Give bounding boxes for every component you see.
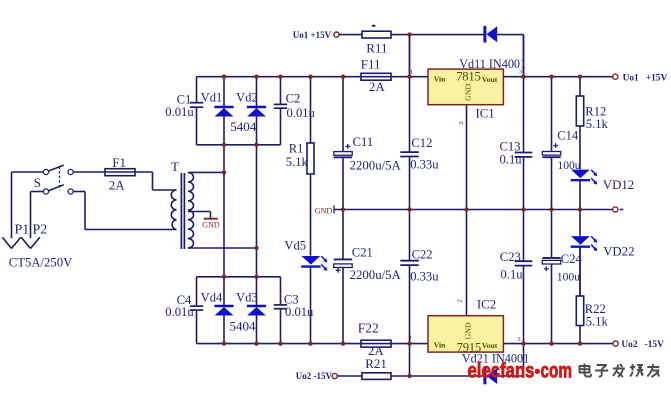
svg-text:Uo1 +15V: Uo1 +15V (293, 30, 332, 40)
svg-text:5404: 5404 (230, 119, 256, 134)
svg-text:F11: F11 (361, 56, 381, 71)
svg-text:F22: F22 (358, 321, 379, 336)
svg-text:C11: C11 (353, 135, 374, 149)
svg-text:0.33u: 0.33u (410, 270, 439, 284)
svg-text:Vin: Vin (434, 74, 446, 83)
svg-text:C2: C2 (286, 91, 301, 105)
svg-text:Vd11 IN4001: Vd11 IN4001 (459, 57, 526, 71)
svg-text:Vin: Vin (434, 340, 446, 349)
svg-text:5404: 5404 (230, 319, 257, 334)
svg-text:GND: GND (464, 84, 473, 101)
svg-text:100u: 100u (557, 159, 580, 172)
svg-text:0.01u: 0.01u (287, 106, 316, 120)
svg-text:VD12: VD12 (603, 178, 634, 192)
svg-text:0.33u: 0.33u (410, 158, 439, 172)
svg-text:0.01u: 0.01u (165, 305, 194, 319)
svg-text:2200u/5A: 2200u/5A (350, 268, 402, 282)
svg-text:Vd3: Vd3 (236, 291, 258, 305)
svg-text:7815: 7815 (456, 69, 480, 83)
svg-text:0.01u: 0.01u (165, 105, 194, 119)
svg-text:R11: R11 (366, 40, 387, 55)
svg-text:100u: 100u (557, 271, 580, 284)
svg-text:C23: C23 (500, 250, 521, 264)
svg-text:0.1u: 0.1u (500, 152, 523, 166)
svg-text:2: 2 (458, 121, 465, 124)
svg-text:1: 1 (409, 334, 412, 341)
svg-text:GND: GND (315, 206, 333, 215)
svg-text:CT5A/250V: CT5A/250V (9, 255, 73, 269)
svg-text:Vd4: Vd4 (201, 291, 223, 305)
svg-text:2: 2 (457, 299, 464, 302)
svg-text:0.01u: 0.01u (285, 305, 314, 319)
svg-text:com: com (541, 359, 573, 382)
svg-text:S: S (34, 175, 41, 190)
svg-text:C12: C12 (411, 136, 432, 150)
svg-text:elecfans: elecfans (468, 359, 535, 382)
svg-text:F1: F1 (112, 155, 126, 170)
svg-text:0.1u: 0.1u (501, 268, 524, 282)
svg-text:2A: 2A (109, 178, 126, 193)
svg-text:P2: P2 (33, 223, 48, 238)
svg-text:C13: C13 (500, 139, 521, 153)
svg-text:GND: GND (464, 322, 473, 339)
svg-text:C24: C24 (561, 252, 583, 266)
svg-text:5.1k: 5.1k (286, 155, 309, 169)
svg-text:5.1k: 5.1k (586, 315, 609, 329)
svg-text:Vout: Vout (482, 75, 498, 84)
svg-text:P1: P1 (15, 223, 30, 238)
svg-text:T: T (171, 159, 179, 174)
svg-text:R21: R21 (365, 356, 387, 371)
svg-text:GND: GND (202, 221, 220, 230)
svg-text:Vd1: Vd1 (201, 91, 223, 105)
svg-text:IC2: IC2 (477, 297, 496, 311)
svg-text:Vd5: Vd5 (284, 238, 306, 252)
svg-text:R1: R1 (289, 141, 304, 155)
svg-text:C22: C22 (412, 247, 433, 261)
svg-text:Uo2 -15V: Uo2 -15V (296, 371, 333, 381)
svg-text:IC1: IC1 (476, 107, 495, 121)
svg-text:2A: 2A (369, 79, 386, 94)
svg-text:2200u/5A: 2200u/5A (350, 159, 402, 173)
svg-text:5.1k: 5.1k (586, 117, 609, 131)
svg-text:Uo1 +15V: Uo1 +15V (623, 73, 668, 83)
svg-text:1: 1 (410, 69, 413, 76)
svg-text:VD22: VD22 (603, 245, 634, 259)
svg-text:Vd2: Vd2 (236, 91, 258, 105)
svg-text:Uo2 -15V: Uo2 -15V (621, 340, 664, 350)
svg-text:C14: C14 (557, 128, 579, 142)
svg-text:Vout: Vout (482, 341, 498, 350)
svg-text:C21: C21 (352, 246, 373, 260)
